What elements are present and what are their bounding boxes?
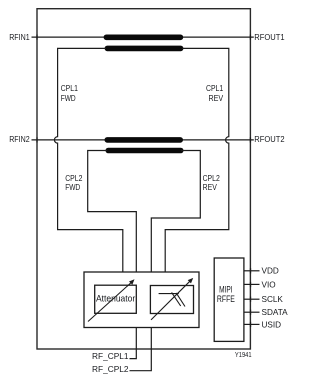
wire RF_CPL1 — [130, 328, 137, 359]
wire CPL1 REV path — [165, 48, 229, 272]
svg-text:RFIN2: RFIN2 — [9, 134, 30, 144]
phase shifter symbol line — [159, 293, 179, 295]
svg-text:RF_CPL1: RF_CPL1 — [92, 352, 129, 361]
svg-text:VDD: VDD — [262, 267, 279, 276]
pin tick RFIN1 — [36, 35, 38, 40]
wire CPL1 FWD path — [54, 48, 122, 272]
pin tick RFOUT2 — [249, 137, 251, 142]
phase shifter variable arrow — [151, 281, 190, 320]
wire VIO pin — [244, 283, 260, 285]
svg-text:REV: REV — [209, 93, 224, 103]
svg-text:SCLK: SCLK — [262, 295, 284, 304]
svg-text:VIO: VIO — [262, 280, 276, 289]
phase shifter slash 1 — [172, 292, 181, 306]
svg-text:RFOUT2: RFOUT2 — [254, 134, 284, 144]
phase shifter slash 2 — [176, 293, 185, 307]
svg-text:RFOUT1: RFOUT1 — [254, 32, 284, 42]
pin tick RFOUT1 — [249, 35, 251, 40]
svg-text:SDATA: SDATA — [262, 308, 289, 317]
coupler CPL1 main bar — [104, 35, 184, 41]
wire USID pin — [244, 323, 260, 325]
attenuator box — [95, 285, 137, 313]
switch block box — [84, 272, 199, 328]
svg-text:REV: REV — [203, 182, 217, 192]
wire VDD pin — [244, 270, 260, 272]
pin tick SCLK — [250, 297, 252, 302]
svg-text:Y1941: Y1941 — [235, 350, 252, 359]
pin tick VDD — [250, 268, 252, 273]
svg-text:RFFE: RFFE — [217, 294, 235, 304]
attenuator variable arrow — [88, 282, 132, 321]
pin tick VIO — [250, 282, 252, 287]
svg-text:FWD: FWD — [61, 93, 76, 103]
pin tick RFIN2 — [36, 137, 38, 142]
svg-text:CPL1: CPL1 — [61, 83, 78, 93]
phase shifter box — [150, 286, 193, 314]
wire RFIN1 to RFOUT1 main line — [32, 36, 254, 38]
MIPI RFFE box — [214, 258, 244, 341]
svg-text:FWD: FWD — [65, 182, 80, 192]
wire RFIN2 to RFOUT2 main line — [32, 139, 254, 141]
svg-text:RF_CPL2: RF_CPL2 — [92, 365, 129, 374]
wire SDATA pin — [244, 311, 260, 313]
pin tick SDATA — [250, 310, 252, 315]
wire CPL2 FWD path — [88, 151, 137, 273]
svg-text:RFIN1: RFIN1 — [9, 32, 30, 42]
svg-text:Attenuator: Attenuator — [96, 293, 135, 303]
wire SCLK pin — [244, 298, 260, 300]
coupler CPL1 coupled bar — [105, 46, 184, 52]
wire CPL2 REV path — [151, 151, 200, 273]
pin tick USID — [250, 322, 252, 327]
svg-text:CPL1: CPL1 — [206, 83, 223, 93]
coupler CPL2 coupled bar — [106, 148, 184, 154]
wire RF_CPL2 — [130, 328, 152, 371]
device outline box — [37, 9, 250, 349]
svg-text:USID: USID — [262, 320, 282, 329]
coupler CPL2 main bar — [105, 137, 184, 143]
